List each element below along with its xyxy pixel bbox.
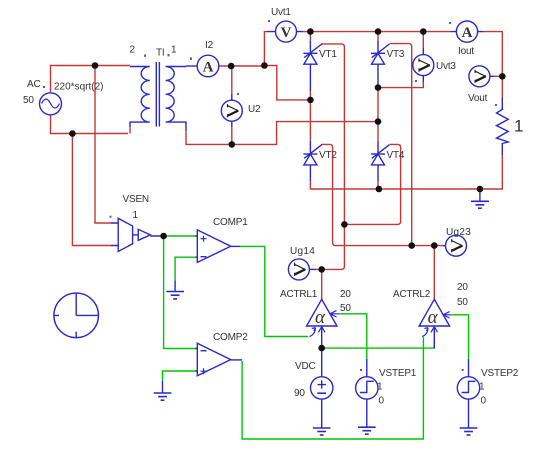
wire: AC source bottom lead <box>51 115 129 134</box>
wire: transformer primary bottom lead to node B rail <box>186 122 378 145</box>
junction: VT3 cathode on top rail <box>375 28 382 35</box>
ammeter I2 <box>197 40 219 77</box>
junction: VT1 anode / VT2 cathode node <box>307 97 314 104</box>
wire: Uvt1 right to VT1 cathode node <box>303 31 310 33</box>
wire: VSTEP2 to ACTRL2 right input <box>451 315 469 359</box>
wire: U2 top lead <box>231 66 233 94</box>
svg-text:VT1: VT1 <box>319 49 337 60</box>
svg-text:VSTEP2: VSTEP2 <box>481 368 519 379</box>
transformer winding labels <box>130 45 193 60</box>
svg-text:20: 20 <box>457 282 468 293</box>
svg-text:VDC: VDC <box>295 361 316 372</box>
svg-text:A: A <box>462 25 473 41</box>
svg-text:TI: TI <box>156 48 165 59</box>
wire: transformer to I2 (blue lead) <box>186 65 198 67</box>
junction: VT3 anode / Uvt3 bottom <box>375 84 382 91</box>
wire: COMP2 plus to ground <box>163 371 198 381</box>
wire: VDC node to ACTRL2 bottom input <box>322 339 435 348</box>
svg-text:I2: I2 <box>205 40 214 51</box>
svg-text:VSEN: VSEN <box>123 194 149 205</box>
junction: VDC node <box>318 345 325 352</box>
svg-text:90: 90 <box>294 388 305 399</box>
svg-text:U2: U2 <box>248 104 261 115</box>
wire: top output rail <box>310 32 502 98</box>
junction: node B at U2 bottom <box>229 141 236 148</box>
wire: VT4 gate run joining gate14 net <box>344 144 400 224</box>
junction: AC top to VSEN+ tap <box>92 62 99 69</box>
svg-text:Vout: Vout <box>468 93 488 104</box>
wire: AC source top lead to node <box>51 66 131 93</box>
ground: COMP1 minus <box>166 281 184 299</box>
svg-text:1: 1 <box>171 45 177 56</box>
wire: gate23 net to ACTRL2 junction and Ug23 <box>412 245 443 247</box>
resistor load 1 ohm <box>497 98 524 156</box>
junction: Uvt3 top on top rail <box>420 28 427 35</box>
junction: VT1 cathode on top rail <box>307 28 314 35</box>
transformer TI <box>130 62 186 131</box>
wire: transformer secondary bottom-left lead <box>129 127 131 134</box>
svg-text:50: 50 <box>23 95 34 106</box>
svg-text:50: 50 <box>340 303 351 314</box>
svg-text:VT2: VT2 <box>319 150 337 161</box>
voltmeter Uvt1 <box>267 7 303 42</box>
ground: output rail <box>471 189 489 208</box>
wire: VT3 verticals <box>377 32 379 189</box>
AC source V1 <box>23 79 62 115</box>
svg-text:50: 50 <box>457 297 468 308</box>
svg-text:COMP2: COMP2 <box>213 332 248 343</box>
op-amp COMP1 <box>196 217 249 262</box>
ground: COMP2 plus <box>154 381 172 400</box>
wire: COMP1 minus to ground <box>175 257 197 280</box>
ACTRL1 alpha block <box>280 289 351 348</box>
wire: COMP1 output to ACTRL1 left input <box>240 246 308 336</box>
svg-text:COMP1: COMP1 <box>213 217 248 228</box>
ammeter Iout <box>449 21 483 57</box>
wire: COMP2 output to ACTRL2 left input <box>242 337 423 439</box>
voltmeter Uvt3 (rotated) <box>413 48 457 82</box>
svg-text:α: α <box>428 307 439 328</box>
svg-text:VSTEP1: VSTEP1 <box>379 368 417 379</box>
wire: I2 to node A, up to Uvt1 <box>219 32 267 66</box>
svg-text:Uvt1: Uvt1 <box>271 7 291 18</box>
wire: VSEN output down to COMP2 minus <box>164 236 197 349</box>
voltmeter U2 (rotated) <box>221 93 261 127</box>
wire: VT1 anode to mid node <box>309 91 311 100</box>
svg-text:Iout: Iout <box>458 46 474 57</box>
svg-text:20: 20 <box>340 289 351 300</box>
wire: VSEN plus feed from top node <box>95 66 111 224</box>
clock <box>54 293 99 338</box>
sensor Ug23 (rotated voltmeter) <box>443 227 471 256</box>
svg-text:A: A <box>203 59 214 75</box>
svg-text:Uvt3: Uvt3 <box>436 61 456 72</box>
wire: VSEN minus feed from bottom node <box>72 134 111 246</box>
wire: Vout lead to output node <box>494 75 502 77</box>
svg-text:1: 1 <box>377 382 383 393</box>
ACTRL2 alpha block <box>393 282 468 348</box>
thyristor VT4 <box>371 141 405 181</box>
ground: VSTEP2 <box>460 428 478 435</box>
wire: VT2 gate run <box>321 144 412 245</box>
source VSTEP1 <box>356 359 417 427</box>
svg-text:1: 1 <box>514 117 523 136</box>
VSEN block <box>110 194 164 252</box>
svg-text:α: α <box>315 307 326 328</box>
svg-text:0: 0 <box>379 396 385 407</box>
ground: VSTEP1 <box>358 427 376 434</box>
wire: mid node down to VT2 cathode <box>309 100 311 141</box>
junction: VT3 gate on gate23 net <box>408 242 415 249</box>
svg-text:Ug23: Ug23 <box>446 227 471 238</box>
junction: VSEN output node <box>160 233 167 240</box>
sensor Vout (rotated voltmeter) <box>468 66 497 106</box>
wire: Uvt3 top lead <box>422 32 424 48</box>
svg-text:220*sqrt(2): 220*sqrt(2) <box>54 82 103 93</box>
svg-text:ACTRL1: ACTRL1 <box>280 289 318 300</box>
svg-text:0: 0 <box>481 396 487 407</box>
junction: node B to VT3/VT4 midpoint <box>375 118 382 125</box>
junction: node A to Uvt1 branch <box>261 62 268 69</box>
sensor Ug14 (rotated voltmeter) <box>288 246 316 280</box>
wire: VSEN output to COMP1 plus (green) <box>164 235 197 237</box>
svg-text:V: V <box>281 25 292 41</box>
wire: node A jog down to VT1 anode <box>264 66 310 100</box>
wire: gate14 net down to Ug14 junction <box>322 224 345 269</box>
thyristor VT3 <box>371 41 405 84</box>
wire: VT3 gate run <box>390 44 412 246</box>
wire: Ug14 junction to ACTRL1 output <box>316 269 322 299</box>
junction: Ug14 / ACTRL1 output node <box>318 266 325 273</box>
junction: gate14 net corner <box>341 221 348 228</box>
svg-text:VT4: VT4 <box>387 150 405 161</box>
source VSTEP2 <box>457 359 518 428</box>
op-amp COMP2 <box>196 332 249 376</box>
junction: ACTRL2 output on gate23 net <box>431 242 438 249</box>
wire: VSTEP1 to ACTRL1 right input <box>339 314 367 359</box>
wire: ACTRL2 output feed <box>433 246 435 300</box>
svg-text:ACTRL2: ACTRL2 <box>393 289 431 300</box>
ground: VDC <box>313 428 331 435</box>
junction: node A at I2 output <box>228 63 235 70</box>
wire: U2 bottom lead <box>231 127 233 144</box>
wire: Uvt3 bottom lead to VT3 anode node <box>378 82 423 88</box>
junction: AC bottom to VSEN- tap <box>69 130 76 137</box>
junction: ground tap on bottom rail <box>477 186 484 193</box>
junction: VT4 anode on bottom rail <box>376 186 383 193</box>
svg-text:1: 1 <box>133 210 139 221</box>
svg-text:VT3: VT3 <box>387 49 405 60</box>
svg-text:1: 1 <box>479 382 485 393</box>
thyristor VT2 <box>303 141 337 181</box>
junction: Vout tap on output line <box>499 73 506 80</box>
wire: VT1 cathode stub <box>309 32 311 41</box>
wire: VT1 gate run <box>321 44 344 225</box>
svg-text:2: 2 <box>130 45 136 56</box>
wire: VT2 anode to bottom rail <box>310 155 502 189</box>
svg-text:Ug14: Ug14 <box>290 246 315 257</box>
thyristor VT1 <box>303 41 337 91</box>
svg-text:AC: AC <box>27 79 41 90</box>
source VDC <box>294 348 333 428</box>
